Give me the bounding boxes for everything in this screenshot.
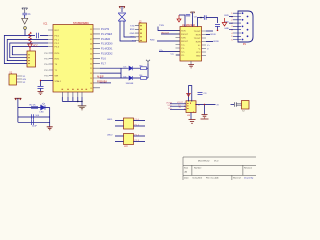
ground under U1 bbox=[62, 97, 82, 106]
U1 right pins bbox=[93, 29, 100, 88]
svg-text:XTAL1: XTAL1 bbox=[55, 80, 62, 83]
resistor R2 bbox=[31, 106, 38, 108]
svg-text:GND: GND bbox=[196, 55, 201, 57]
svg-text:TXD: TXD bbox=[225, 22, 230, 24]
svg-text:P1.4/CEX1: P1.4/CEX1 bbox=[101, 49, 113, 51]
svg-text:P1.2/ECI: P1.2/ECI bbox=[101, 39, 111, 41]
svg-text:MCU 89C52: MCU 89C52 bbox=[198, 161, 210, 163]
power VCC arrow right bbox=[222, 18, 227, 26]
diode D3 bbox=[129, 66, 133, 70]
svg-text:GND: GND bbox=[130, 33, 135, 35]
svg-text:V-: V- bbox=[207, 48, 209, 50]
U3 bottom wire + ground bbox=[190, 113, 192, 120]
resistor R1 RST pulldown bbox=[29, 32, 32, 43]
svg-text:T2IN: T2IN bbox=[181, 37, 186, 39]
svg-text:RST: RST bbox=[55, 30, 60, 32]
wire xtal to U1 bbox=[41, 81, 54, 87]
wire bbox=[24, 15, 26, 18]
svg-text:1N4148: 1N4148 bbox=[126, 83, 134, 85]
svg-text:8-31-2005: 8-31-2005 bbox=[193, 177, 203, 179]
svg-text:R1IN: R1IN bbox=[211, 34, 216, 36]
db9 P1 bbox=[231, 11, 253, 46]
svg-text:R1OUT: R1OUT bbox=[162, 32, 170, 34]
wire P0 to diode bus bbox=[100, 68, 121, 78]
svg-text:UD-: UD- bbox=[168, 108, 172, 110]
connector J2 bbox=[135, 22, 147, 43]
U2 top vcc + caps bbox=[179, 13, 204, 27]
svg-text:R2IN: R2IN bbox=[214, 41, 219, 43]
svg-text:R1OUT: R1OUT bbox=[181, 34, 189, 36]
crystal Y1 bbox=[9, 73, 22, 85]
U1 left pin names bbox=[55, 30, 62, 83]
svg-text:VOUT: VOUT bbox=[177, 102, 184, 104]
svg-text:P1.2: P1.2 bbox=[135, 135, 140, 137]
svg-text:U2 MAX232: U2 MAX232 bbox=[182, 24, 196, 27]
svg-text:Sheet of: Sheet of bbox=[233, 176, 241, 179]
capacitor C1 top-left bbox=[22, 13, 27, 15]
ground bbox=[38, 92, 44, 95]
title block bbox=[183, 157, 256, 180]
svg-text:RXD: RXD bbox=[130, 29, 135, 31]
wire led rail bbox=[18, 98, 50, 127]
U3 left wires + labels bbox=[170, 104, 186, 110]
usb ic U3 bbox=[184, 101, 200, 113]
mcu U1 bbox=[44, 22, 94, 92]
svg-text:P1.6: P1.6 bbox=[101, 58, 106, 60]
svg-text:V-: V- bbox=[199, 48, 201, 50]
power VCC arrow above J1 bbox=[28, 44, 32, 51]
svg-text:WR: WR bbox=[55, 76, 59, 78]
svg-text:Number: Number bbox=[194, 166, 202, 169]
svg-text:Drawn By:: Drawn By: bbox=[244, 177, 254, 180]
svg-text:P1.7: P1.7 bbox=[101, 63, 106, 65]
wire U1 xtal labels bbox=[100, 82, 111, 84]
U2 left pins bbox=[176, 31, 181, 56]
capacitor C8 right bbox=[206, 30, 213, 32]
U1 right net labels bbox=[101, 29, 113, 65]
U3 top loop + vcc bbox=[189, 86, 192, 102]
ground bbox=[47, 127, 53, 130]
svg-text:Date:: Date: bbox=[184, 176, 189, 179]
U3 right wire bbox=[196, 105, 216, 115]
capacitor C5 bbox=[32, 120, 34, 125]
svg-text:VCC: VCC bbox=[130, 37, 135, 39]
crystal X2 right bbox=[231, 104, 235, 106]
svg-text:T1OUT: T1OUT bbox=[194, 31, 202, 33]
svg-text:VCC: VCC bbox=[196, 52, 201, 54]
svg-text:P1.1/T2EX: P1.1/T2EX bbox=[101, 34, 113, 36]
svg-text:RXD: RXD bbox=[150, 39, 155, 41]
wire U2 left nets bbox=[157, 41, 180, 55]
svg-text:IC1: IC1 bbox=[44, 22, 49, 25]
svg-text:INT0: INT0 bbox=[55, 53, 61, 55]
power VCC bar bbox=[190, 12, 194, 13]
svg-text:C2-: C2- bbox=[171, 54, 175, 56]
svg-text:P1.3/CEX0: P1.3/CEX0 bbox=[101, 44, 113, 46]
svg-text:C2-: C2- bbox=[181, 55, 185, 57]
svg-text:D-: D- bbox=[179, 107, 182, 109]
U1 bottom pins bbox=[62, 92, 82, 97]
svg-text:File: mcu.ddb: File: mcu.ddb bbox=[206, 177, 219, 179]
jumper K2 bbox=[107, 134, 145, 149]
power VCC bbox=[177, 15, 181, 22]
svg-text:P3.2: P3.2 bbox=[55, 43, 60, 45]
svg-text:T1IN: T1IN bbox=[181, 30, 186, 32]
diode bus bbox=[121, 64, 148, 79]
svg-text:P3.3: P3.3 bbox=[55, 47, 60, 49]
power VCC top-left bbox=[22, 8, 28, 13]
svg-text:R2IN: R2IN bbox=[196, 41, 201, 43]
svg-text:UD+: UD+ bbox=[168, 105, 173, 107]
svg-text:VCC: VCC bbox=[33, 46, 38, 48]
resistor R4 bbox=[141, 77, 147, 80]
U2 right pins bbox=[202, 31, 207, 56]
antenna Y symbol bbox=[146, 60, 150, 64]
svg-text:C2+: C2+ bbox=[159, 50, 164, 52]
jumper K1 bbox=[107, 118, 145, 129]
U1 right pin numbers bbox=[90, 29, 93, 90]
svg-text:LED: LED bbox=[40, 111, 45, 113]
svg-text:P1.5/CEX2: P1.5/CEX2 bbox=[101, 54, 113, 56]
svg-text:Revision: Revision bbox=[244, 167, 253, 169]
U2 bottom pin + ground bbox=[190, 61, 192, 65]
node ball bbox=[24, 27, 27, 30]
capacitor C2 on RST bbox=[37, 33, 39, 38]
db9 wires + labels bbox=[229, 17, 233, 30]
max232 U2 bbox=[180, 24, 202, 61]
resistor R3 bbox=[141, 67, 147, 70]
svg-text:10uF: 10uF bbox=[32, 126, 38, 128]
svg-text:P1.3: P1.3 bbox=[135, 140, 140, 142]
U1 left pins bbox=[48, 30, 53, 76]
svg-text:GND: GND bbox=[224, 28, 229, 30]
svg-text:R2OUT: R2OUT bbox=[181, 41, 189, 43]
capacitor C7 bbox=[200, 17, 202, 19]
svg-text:T1IN: T1IN bbox=[159, 25, 164, 27]
svg-text:P3.1: P3.1 bbox=[55, 40, 60, 42]
power VCC bbox=[119, 7, 125, 9]
U2 right net labels bbox=[207, 34, 219, 50]
connector J1 bbox=[27, 51, 36, 67]
svg-text:RXD: RXD bbox=[224, 15, 229, 17]
svg-text:P3.0: P3.0 bbox=[55, 36, 60, 38]
capacitor C6 bbox=[186, 14, 190, 16]
svg-text:C1-: C1- bbox=[181, 48, 185, 50]
diode D4 bbox=[129, 76, 133, 80]
ground right of U3 bbox=[201, 115, 209, 120]
wire to max bbox=[120, 21, 180, 41]
svg-text:TXD: TXD bbox=[130, 26, 135, 28]
power VCC led rail bbox=[15, 98, 22, 100]
svg-text:R2 1K: R2 1K bbox=[30, 105, 37, 107]
svg-text:STC89C52RC: STC89C52RC bbox=[73, 22, 89, 25]
svg-text:LED1: LED1 bbox=[107, 119, 113, 121]
svg-text:GN: GN bbox=[23, 79, 27, 81]
svg-text:LED2: LED2 bbox=[107, 135, 113, 137]
LED D1 bbox=[41, 103, 45, 110]
svg-text:INT1: INT1 bbox=[55, 59, 61, 61]
capacitor C4 bbox=[32, 114, 34, 119]
svg-text:ALE/P: ALE/P bbox=[97, 75, 104, 78]
svg-text:T2OUT: T2OUT bbox=[194, 38, 202, 40]
capacitor C3 bbox=[38, 87, 44, 89]
crystal X1 block bbox=[118, 13, 126, 21]
svg-text:P1.0/T2: P1.0/T2 bbox=[101, 29, 110, 31]
svg-text:PSEN/EA: PSEN/EA bbox=[97, 80, 107, 83]
svg-text:R1IN: R1IN bbox=[196, 34, 201, 36]
svg-text:P1.1: P1.1 bbox=[135, 125, 140, 127]
wire loop nest bbox=[4, 36, 48, 64]
svg-text:P1.0: P1.0 bbox=[135, 119, 140, 121]
ground bbox=[22, 18, 28, 24]
